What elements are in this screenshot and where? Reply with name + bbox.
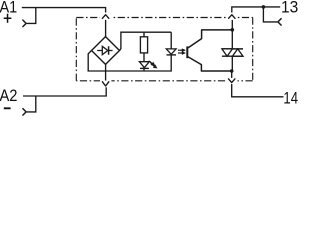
- bridge diode wire: [97, 50, 112, 52]
- terminal clamp 13 (right chevron): [278, 19, 281, 25]
- bridge diode triangle: [102, 46, 108, 54]
- junction node 13: [262, 5, 266, 9]
- wire node up to terminal 13: [231, 20, 233, 30]
- wire 13 rail: [232, 7, 280, 13]
- plus sign at A1: [4, 14, 12, 23]
- terminal clamp 13 module side (up chevron): [229, 15, 235, 19]
- status LED triangle: [139, 62, 149, 68]
- terminal clamp A1 (left chevron): [23, 20, 26, 27]
- border knockouts where wires cross: [100, 16, 238, 84]
- wire resistor to status LED: [143, 53, 145, 71]
- terminal clamp 14 module side (down chevron): [229, 79, 235, 83]
- phototransistor collector: [188, 30, 232, 48]
- resistor R: [143, 32, 145, 37]
- wire triac bottom to node: [231, 56, 233, 71]
- wire A2 clamp stub: [26, 96, 36, 112]
- wire bridge plus to top rail: [120, 32, 172, 50]
- svg-text:A2: A2: [0, 87, 18, 105]
- triac right triangle: [232, 49, 243, 56]
- junction node emitter/14: [230, 69, 234, 73]
- junction node collector/13: [231, 28, 235, 32]
- bridge diode cathode bar: [108, 46, 110, 54]
- triac left triangle: [222, 49, 233, 56]
- wire node down to terminal 14: [231, 71, 233, 78]
- wire 13 clamp stub: [263, 7, 277, 22]
- terminal clamp A2 module side (down chevron): [102, 82, 108, 86]
- wire node to triac top: [231, 30, 233, 49]
- optocoupler light arrows: [178, 49, 186, 55]
- wire A1 into bridge: [105, 20, 107, 37]
- svg-text:A1: A1: [0, 0, 17, 17]
- svg-text:13: 13: [281, 0, 298, 17]
- svg-text:14: 14: [283, 90, 298, 108]
- minus sign at A2: [4, 107, 11, 109]
- optocoupler LED triangle: [166, 49, 176, 54]
- phototransistor emitter: [188, 57, 232, 71]
- wire bridge minus to bottom rail: [88, 51, 171, 72]
- optocoupler LED cathode bar: [167, 54, 177, 56]
- wire 14 rail: [232, 84, 284, 97]
- wire A1 rail: [22, 8, 106, 13]
- optocoupler LED anode wire: [170, 32, 172, 49]
- bridge rectifier diamond: [92, 37, 120, 65]
- terminal clamp A2 (left chevron): [23, 109, 26, 116]
- terminal clamp A1 module side (up chevron): [102, 15, 108, 19]
- phototransistor base bar: [186, 46, 188, 58]
- wire bridge to A2 clamp: [105, 64, 107, 80]
- status LED cathode bar: [140, 67, 149, 69]
- module border (dash-dot box): [76, 18, 252, 81]
- wire A1 clamp stub: [26, 8, 36, 24]
- wire A2 rail: [23, 87, 106, 96]
- triac bottom bar: [222, 55, 243, 57]
- triac top bar: [222, 48, 243, 50]
- status LED emission arrows: [149, 61, 157, 68]
